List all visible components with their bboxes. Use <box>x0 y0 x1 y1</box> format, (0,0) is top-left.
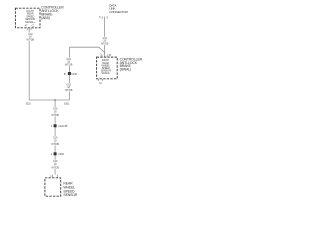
svg-text:CONNECTOR: CONNECTOR <box>109 10 128 14</box>
node S201 label <box>64 103 70 106</box>
DLC pin bracket <box>102 16 107 18</box>
W6 value label 3 G19 18 WT/DB <box>51 160 59 169</box>
svg-text:WT/DB: WT/DB <box>65 63 73 66</box>
svg-text:C120 2B: C120 2B <box>58 125 67 128</box>
wire W2: horizontal bus <box>29 99 69 101</box>
controller ABS box U1 <box>15 8 40 28</box>
controller RWAL box U2 <box>97 57 118 79</box>
U1 connector label C1 <box>32 24 36 27</box>
wire W4: branch horizontal to splice <box>69 47 104 52</box>
svg-text:WT/DB: WT/DB <box>26 38 34 41</box>
W1 value label G19 18 WT/DB <box>26 33 34 41</box>
W3 value label G19 18 WT/DB <box>65 58 73 66</box>
junction node dot <box>54 99 56 101</box>
sensor pin 1 bracket <box>53 175 58 177</box>
W5 value label G19 18 WT/DB <box>101 37 109 46</box>
sensor name label: REAR WHEEL SPEED SENSOR <box>63 182 78 198</box>
U1 pin number 4 <box>25 24 28 27</box>
svg-text:(RWAL): (RWAL) <box>120 68 131 72</box>
C230 pin letter B <box>64 73 66 76</box>
U1 pin 4 bracket <box>27 28 31 30</box>
U1 internal label: REAR WHEEL SPEED SENSOR SIGNAL <box>25 10 36 24</box>
C120 label <box>58 125 67 128</box>
svg-text:C306: C306 <box>58 153 64 156</box>
sensor pin number 1 <box>50 175 52 178</box>
svg-text:WT/DB: WT/DB <box>51 143 59 146</box>
C230 label <box>71 73 77 76</box>
svg-text:SIGNAL: SIGNAL <box>101 72 110 75</box>
inline connector C120 <box>54 124 57 127</box>
C306 label <box>58 153 64 156</box>
data link connector label <box>109 3 128 14</box>
inline connector C230 <box>68 72 71 75</box>
controller RWAL pin 15 bracket <box>102 55 107 57</box>
U2 bottom pin number 14 <box>99 82 102 85</box>
svg-text:WT/DB: WT/DB <box>51 166 59 169</box>
svg-text:WT/DB: WT/DB <box>51 114 59 117</box>
svg-text:C230: C230 <box>71 73 77 76</box>
DLC pin number 6 <box>99 16 101 19</box>
U1 name label: CONTROLLER ANTI-LOCK BRAKE (ABS) <box>41 6 64 20</box>
W6 value label 2 G19 18 WT/DB <box>51 136 59 145</box>
U2 name label: CONTROLLER ANTI-LOCK BRAKE (RWAL) <box>120 57 143 71</box>
svg-text:S201: S201 <box>64 103 70 106</box>
wire W3: RWAL branch vertical <box>68 47 70 100</box>
wire W1: ABS pin down <box>28 28 30 100</box>
W3 value label 2 G19 18 WT/DB <box>65 83 73 91</box>
U2 bottom pin 14 bracket <box>99 79 103 81</box>
svg-text:S110: S110 <box>26 103 32 106</box>
RWAL pin letter 2 <box>100 54 102 57</box>
C120 pin letter 1 <box>51 125 53 128</box>
svg-text:SENSOR: SENSOR <box>63 193 78 197</box>
svg-text:(ABS): (ABS) <box>41 16 50 20</box>
U2 internal label: REAR WHEEL SPEED SENSOR SIGNAL <box>101 59 111 75</box>
svg-text:WT/DB: WT/DB <box>65 89 73 92</box>
wire W5: DLC down to RWAL pin <box>104 17 106 55</box>
wire W6: sensor feed down <box>54 100 56 175</box>
C306 pin letter 1 <box>51 153 53 156</box>
splice junction dot on W5 <box>104 51 106 53</box>
W6 value label G19 18 WT/DB <box>51 107 59 116</box>
RWAL pin number 15 <box>108 54 111 57</box>
rear wheel speed sensor box <box>45 178 61 196</box>
wire W5 stub into pin <box>104 53 106 57</box>
inline connector C306 <box>54 152 57 155</box>
node S110 label <box>26 103 32 106</box>
svg-text:WT/DB: WT/DB <box>101 43 109 46</box>
